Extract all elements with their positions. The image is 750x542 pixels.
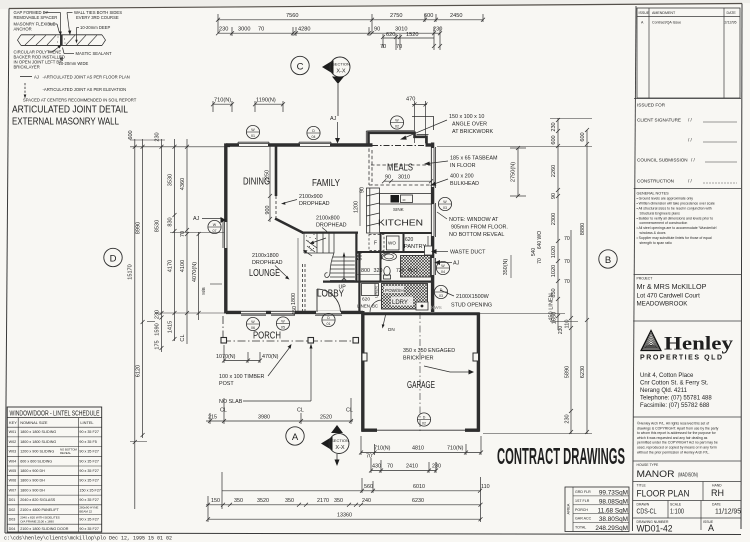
- svg-text:02: 02: [395, 125, 399, 129]
- sheet top border: [9, 4, 742, 9]
- grid circle C: [291, 56, 309, 74]
- laundry crosshatch: [382, 284, 428, 310]
- kitchen window lines: [434, 203, 436, 237]
- wall: dining/family divider: [275, 145, 278, 196]
- drophead note: 2100x900: [281, 194, 330, 207]
- svg-text:DN: DN: [388, 327, 395, 332]
- fridge dashed box: [369, 235, 384, 251]
- svg-text:A: A: [708, 523, 714, 533]
- wall: stair top: [302, 232, 358, 234]
- front door swing arc D01: [317, 289, 341, 312]
- svg-text:11.68 SqM: 11.68 SqM: [598, 507, 628, 514]
- garage walls: [362, 311, 480, 432]
- svg-text:Nerang Qld. 4211: Nerang Qld. 4211: [640, 388, 688, 394]
- svg-text:600: 600: [424, 13, 433, 19]
- svg-text:350: 350: [234, 498, 243, 504]
- svg-text:GRD FLR: GRD FLR: [575, 490, 591, 494]
- svg-text:ANGLE OVER: ANGLE OVER: [452, 122, 487, 128]
- dim row 2: 230 3000 70 4280 90 3010 230: [216, 27, 442, 51]
- svg-text:W03: W03: [9, 450, 17, 454]
- door circle D03 right: [434, 285, 447, 298]
- section marker X-X top: [322, 57, 350, 116]
- meals bay outline thin above: [412, 117, 434, 131]
- svg-text:3010: 3010: [398, 175, 410, 181]
- svg-text:RH: RH: [711, 488, 724, 498]
- window circle W04 right: [436, 261, 449, 274]
- window circle W02: [390, 116, 403, 129]
- svg-text:KITCHEN: KITCHEN: [378, 219, 423, 228]
- svg-text:1190(N): 1190(N): [256, 98, 276, 104]
- svg-text:COUNCIL SUBMISSION: COUNCIL SUBMISSION: [637, 158, 688, 163]
- waste duct box: [425, 246, 433, 255]
- exterior wall: meals bay step: [366, 131, 428, 144]
- svg-text:C: C: [297, 62, 304, 73]
- schedule header: [9, 420, 94, 425]
- issued for box: [634, 99, 741, 184]
- svg-text:AT BRICKWORK: AT BRICKWORK: [452, 129, 494, 135]
- svg-text:REMOVABLE SPACER: REMOVABLE SPACER: [14, 15, 58, 20]
- svg-text:2410: 2410: [406, 464, 418, 470]
- svg-text:MASTIC SEALANT: MASTIC SEALANT: [76, 51, 113, 56]
- svg-text:PORCH: PORCH: [253, 331, 281, 342]
- svg-text:W04: W04: [9, 459, 17, 463]
- top margin shade: [0, 0, 750, 9]
- dim row 3: 620 1520 + 70 70: [380, 32, 434, 50]
- svg-text:WASTE DUCT: WASTE DUCT: [450, 250, 486, 256]
- svg-text:permitted under the COPYRIG: permitted under the COPYRIGHT Act no par…: [637, 441, 718, 445]
- wall: angled lounge/stair: [275, 219, 304, 234]
- svg-text:90: 90: [551, 193, 557, 199]
- note: 2100x1500W stud opening: [440, 290, 492, 309]
- SECTION: floor plan: [193, 116, 460, 332]
- svg-text:2450: 2450: [450, 13, 462, 19]
- svg-text:to whom this report is ad: to whom this report is addressed for the…: [637, 431, 717, 435]
- svg-text:-ARTICULATED JOINT AS PER: -ARTICULATED JOINT AS PER ELEVATION: [43, 87, 127, 92]
- note: masonry flexible anchor: [14, 22, 60, 34]
- svg-text:WO: WO: [388, 241, 396, 246]
- svg-text:7560: 7560: [286, 13, 298, 19]
- right chain B x=571: [565, 230, 574, 434]
- svg-text:NOTE: WINDOW AT: NOTE: WINDOW AT: [449, 217, 499, 223]
- svg-text:W07: W07: [9, 488, 17, 492]
- grid circle A: [286, 427, 304, 445]
- svg-text:W: W: [281, 320, 285, 324]
- schedule row lines: [7, 427, 102, 524]
- svg-text:11/12/95: 11/12/95: [715, 509, 741, 516]
- chain line 4 x=174.5 : 3530 830 4170 1415: [168, 139, 177, 341]
- area table: [565, 487, 629, 532]
- general notes box: [634, 189, 741, 245]
- svg-text:230: 230: [565, 414, 571, 423]
- porch CL dim row: [206, 398, 353, 424]
- svg-text:04: 04: [441, 270, 445, 274]
- pantry shelves: [427, 236, 429, 250]
- note: no slab: [219, 344, 313, 406]
- wall section: masonry courses: [18, 35, 106, 46]
- svg-text:W: W: [251, 128, 255, 132]
- window openings: thin sections overlay: [224, 143, 434, 315]
- svg-text:6120: 6120: [136, 365, 142, 377]
- svg-text:M/B: M/B: [201, 287, 206, 295]
- svg-text:LDRY: LDRY: [392, 300, 408, 306]
- porch posts: [221, 338, 227, 344]
- svg-text:70: 70: [564, 259, 570, 265]
- dim row: 430 70 2410 230: [366, 454, 441, 474]
- exterior wall: bottom (lounge/lobby): [226, 312, 363, 315]
- svg-text:CL: CL: [180, 334, 186, 341]
- svg-text:DROPHEAD: DROPHEAD: [299, 201, 330, 207]
- svg-text:CDS-CL: CDS-CL: [637, 509, 657, 516]
- svg-text:01: 01: [327, 322, 331, 326]
- svg-text:KEY: KEY: [9, 420, 17, 425]
- meals tasbeam dashed line: [371, 164, 431, 166]
- svg-text:230: 230: [219, 27, 228, 33]
- svg-text:NOMINAL SIZE: NOMINAL SIZE: [20, 420, 48, 425]
- engaged brick pier right: [473, 353, 479, 361]
- svg-text:1800 x 900 DH: 1800 x 900 DH: [20, 488, 45, 492]
- title block frame: [633, 6, 637, 531]
- svg-text:which it was requested and: which it was requested and any fair deal…: [637, 436, 708, 440]
- schedule outer frame: [7, 407, 102, 532]
- svg-text:PANTRY: PANTRY: [404, 244, 426, 250]
- note: waste duct: [431, 249, 486, 256]
- svg-text:W01: W01: [9, 430, 17, 434]
- svg-text:CONTRACT DRAWINGS: CONTRACT DRAWINGS: [497, 443, 625, 469]
- svg-text:470(N): 470(N): [262, 354, 279, 360]
- svg-text:NO SLAB: NO SLAB: [219, 399, 243, 405]
- svg-text:5890: 5890: [565, 366, 571, 378]
- svg-text:185 x 65 TASBEAM: 185 x 65 TASBEAM: [450, 156, 498, 162]
- kitchen bench band (left): [367, 188, 380, 233]
- right garage verticals for dims: [435, 462, 437, 471]
- wall: laundry top: [357, 281, 432, 283]
- winder diagonals: [306, 240, 317, 248]
- SECTION: lintel schedule: [7, 407, 102, 532]
- bulkhead dashed line: [369, 184, 432, 186]
- svg-text:LOUNGE: LOUNGE: [249, 268, 280, 279]
- wc door arc: [381, 253, 390, 263]
- svg-text:DATE: DATE: [712, 503, 722, 507]
- dim row: 560 6010 110: [222, 472, 490, 509]
- svg-text:D: D: [312, 129, 315, 133]
- dim: 2250 rotated: [265, 170, 271, 182]
- door circle D02: [417, 413, 430, 426]
- henley logo box: [633, 321, 741, 409]
- svg-text:350: 350: [334, 498, 343, 504]
- svg-text:90 x 35 F27: 90 x 35 F27: [79, 459, 98, 463]
- dim 710(N) top left: [211, 98, 234, 113]
- schedule column lines: [17, 418, 19, 532]
- svg-text:2250: 2250: [265, 170, 271, 182]
- svg-text:HAND: HAND: [712, 484, 722, 488]
- svg-text:3000: 3000: [238, 27, 250, 33]
- note: mastic sealant: [63, 48, 113, 57]
- wc window: [434, 258, 436, 275]
- section marker X-X bottom: [321, 425, 349, 466]
- SECTION: left dimension chains: [104, 130, 230, 509]
- dim 1190(N) top: [253, 98, 285, 113]
- svg-text:STUD OPENING: STUD OPENING: [451, 303, 492, 309]
- svg-text:W.C: W.C: [408, 268, 418, 274]
- dim row: 13360: [206, 477, 483, 522]
- svg-text:• Written dimension will tak: • Written dimension will take precedence…: [637, 202, 715, 206]
- svg-text:1800: 1800: [291, 293, 297, 305]
- svg-text:70: 70: [380, 44, 386, 50]
- svg-text:4360: 4360: [180, 178, 186, 190]
- svg-text:NO BOTTOM REVEAL: NO BOTTOM REVEAL: [449, 232, 504, 238]
- exterior wall: top (dining/family): [226, 142, 434, 145]
- svg-text:CONSTRUCTION: CONSTRUCTION: [637, 179, 674, 184]
- svg-text:2100x800: 2100x800: [316, 216, 340, 222]
- sheet left border: [5, 9, 9, 534]
- copyright box: [633, 417, 741, 454]
- svg-text:• Supplier may substitute l: • Supplier may substitute lintels for th…: [637, 236, 712, 240]
- svg-text:PORCH: PORCH: [575, 508, 588, 512]
- svg-text:230: 230: [551, 122, 557, 131]
- svg-text:02: 02: [422, 422, 426, 426]
- svg-text:04: 04: [312, 135, 316, 139]
- amendment table: [637, 8, 740, 98]
- drawn row: [633, 501, 741, 519]
- svg-text:1800 x 1800 SLIDING: 1800 x 1800 SLIDING: [20, 430, 56, 434]
- chain line 5 x=187 : 4360 70 4100 CL: [180, 139, 189, 344]
- svg-text:10-20mm DEEP: 10-20mm DEEP: [80, 25, 110, 30]
- svg-text:used, reproduced or copied: used, reproduced or copied by means or i…: [637, 446, 717, 450]
- exterior wall: left: [223, 143, 226, 313]
- svg-text:1200 x 900 SLIDING: 1200 x 900 SLIDING: [20, 450, 54, 454]
- kitchen dims 90 / 3010: [382, 175, 433, 184]
- svg-text:1ST FLR: 1ST FLR: [575, 499, 590, 503]
- kitchen top bench with sink: [380, 194, 433, 213]
- wall oven box: [387, 236, 400, 250]
- svg-text:W: W: [213, 223, 217, 227]
- svg-text:2/12/95: 2/12/95: [725, 21, 737, 25]
- AJ marker left wall: [193, 216, 226, 223]
- dim row: 710(N) 4810 710(N): [359, 436, 483, 455]
- svg-text:DATE: DATE: [727, 11, 737, 15]
- SECTION: title block: [633, 6, 742, 535]
- sink unit: [401, 195, 413, 203]
- dim ticks dining wall: [268, 146, 272, 222]
- svg-text:B: B: [605, 255, 611, 266]
- svg-text:A: A: [292, 432, 299, 443]
- schedule rows: [9, 430, 101, 531]
- dim row: 150 350 3520 350 2170 350 240 6230: [206, 496, 483, 522]
- svg-text:1020: 1020: [551, 265, 557, 277]
- meals window lines: [434, 147, 436, 188]
- exterior wall: right: [433, 143, 436, 313]
- svg-text:drawings is COPYRIGHT. Apar: drawings is COPYRIGHT. Apart from use by…: [637, 426, 719, 430]
- svg-text:620: 620: [386, 32, 395, 38]
- svg-text:strength to span ratio: strength to span ratio: [640, 241, 672, 245]
- joint: [60, 35, 63, 46]
- svg-text:830: 830: [168, 217, 174, 226]
- stair arrow up: [339, 252, 347, 291]
- svg-text:70: 70: [396, 44, 402, 50]
- garage center dash-dot line: [419, 312, 421, 431]
- connector ticks right: [437, 119, 592, 434]
- svg-text:600: 600: [128, 130, 134, 139]
- svg-text:CLIENT SIGNATURE: CLIENT SIGNATURE: [637, 118, 681, 123]
- note: wall ties both sides: [67, 10, 122, 35]
- note: 185x65 tasbeam: [424, 156, 498, 170]
- opening 2100x900 below divider (drophead): [275, 196, 277, 219]
- svg-text:ARTICULATED JOINT DETAIL: ARTICULATED JOINT DETAIL: [12, 105, 128, 116]
- svg-text:110: 110: [481, 484, 490, 490]
- svg-text:2520: 2520: [320, 415, 332, 421]
- svg-text:BULKHEAD: BULKHEAD: [450, 181, 479, 187]
- drophead note: 2100x800: [316, 216, 347, 232]
- svg-text:WINDOW/DOOR - LINTEL SCHEDULE: WINDOW/DOOR - LINTEL SCHEDULE: [10, 409, 100, 418]
- svg-text:D02: D02: [9, 508, 16, 512]
- house type box: [633, 461, 741, 480]
- svg-text:2100x900: 2100x900: [299, 194, 323, 200]
- svg-text:8530: 8530: [155, 220, 161, 232]
- svg-text:01: 01: [251, 134, 255, 138]
- svg-text:DRAWN: DRAWN: [637, 503, 650, 507]
- svg-text:D04: D04: [9, 527, 16, 531]
- svg-text:MEALS: MEALS: [387, 163, 413, 174]
- svg-text:1:100: 1:100: [670, 509, 684, 516]
- svg-text:ISSUE: ISSUE: [639, 11, 650, 15]
- svg-text:90 x 35 F27: 90 x 35 F27: [79, 450, 98, 454]
- svg-text:• Builder to verify all dim: • Builder to verify all dimensions and l…: [637, 216, 714, 220]
- svg-text:MEADOWBROOK: MEADOWBROOK: [637, 301, 689, 308]
- note: 350x350 engaged brick pier: [403, 348, 474, 375]
- chain line 1 x=134.5 : 15170: [128, 130, 137, 509]
- svg-text:D03: D03: [9, 518, 16, 522]
- svg-text:1415: 1415: [168, 321, 174, 333]
- door D04 recess in top wall: [299, 142, 331, 145]
- label: POW/SH + LDRY: [384, 286, 404, 293]
- kitchen/pantry wall: [380, 232, 432, 234]
- svg-text:W: W: [441, 264, 445, 268]
- note: 150x100x10 angle over: [400, 114, 494, 140]
- svg-text:CL: CL: [346, 408, 353, 414]
- svg-text:BRICK PIER: BRICK PIER: [403, 356, 434, 362]
- svg-text:AREA: AREA: [566, 503, 571, 514]
- chain line 3 x=161.5 : 8530 230 1590 175: [155, 132, 164, 352]
- dim 470 top right: [406, 97, 428, 144]
- svg-text:LINEN: LINEN: [357, 304, 370, 309]
- vanity oval in wc: [382, 253, 397, 261]
- svg-text:• Ground levels are approxi: • Ground levels are approximate only: [637, 197, 694, 201]
- svg-text:13360: 13360: [337, 513, 352, 519]
- legend: AJ floor plan: [20, 75, 130, 80]
- svg-text:6010: 6010: [413, 484, 425, 490]
- svg-text:©Henley Arch P/L. All rights: ©Henley Arch P/L. All rights reserved th…: [637, 422, 709, 426]
- svg-text:1800 x 900 DH: 1800 x 900 DH: [20, 469, 45, 473]
- door circle D01 bottom: [322, 313, 335, 326]
- svg-text:620: 620: [405, 237, 414, 243]
- SECTION: contract + area table: [497, 443, 629, 532]
- svg-text:CL: CL: [297, 408, 304, 414]
- SECTION: footer path: [4, 536, 172, 542]
- svg-text:AJ: AJ: [453, 261, 460, 267]
- sheet bottom border: [5, 533, 741, 535]
- porch dims 1070(N) 470(N): [216, 345, 279, 363]
- svg-text:8880: 8880: [580, 223, 586, 235]
- svg-text:1200: 1200: [354, 201, 360, 213]
- window W01 recess in top wall: [238, 142, 269, 145]
- svg-text:Unit 4, Cotton Place: Unit 4, Cotton Place: [640, 373, 694, 379]
- svg-text:MANOR: MANOR: [637, 469, 675, 480]
- svg-text:ISSUED FOR: ISSUED FOR: [637, 103, 666, 108]
- winder treads vertical: [316, 234, 318, 254]
- svg-text:4070(N): 4070(N): [192, 262, 198, 282]
- svg-text:230: 230: [433, 27, 442, 33]
- note: 10-20mm wide: [59, 56, 89, 66]
- svg-text:POW/SH: POW/SH: [385, 288, 404, 293]
- garage door opening line: [376, 429, 466, 431]
- SECTION: articulated joint detail: [12, 10, 137, 128]
- svg-text:W02: W02: [9, 440, 17, 444]
- wall: stair right / lobby: [355, 233, 357, 282]
- right chain C x=587: [580, 128, 589, 434]
- svg-text:600 x 600 SLIDING: 600 x 600 SLIDING: [20, 459, 52, 463]
- note: circular polythene backer rod: [14, 45, 65, 70]
- SECTION: bottom dims: [206, 311, 490, 522]
- svg-text:640 WO: 640 WO: [537, 231, 543, 249]
- window circle W06 bottom: [246, 317, 259, 330]
- svg-text:ANCHOR: ANCHOR: [14, 27, 32, 32]
- svg-text:• All steel openings are to: • All steel openings are to accommodate …: [637, 226, 718, 230]
- svg-text:03: 03: [443, 206, 447, 210]
- AJ marker right wall: [435, 260, 460, 267]
- window circle W05 bottom: [276, 317, 289, 330]
- svg-text::c:: :c:: [402, 197, 406, 202]
- svg-text:BRICKLAYER: BRICKLAYER: [14, 65, 40, 70]
- hws appliance: [416, 302, 428, 310]
- svg-text:W: W: [395, 119, 399, 123]
- svg-text:WD01-42: WD01-42: [637, 524, 673, 535]
- svg-text:07: 07: [213, 229, 217, 233]
- svg-text:175: 175: [155, 340, 161, 349]
- note: 100x100 timber post: [219, 344, 292, 387]
- svg-text:2100x1800: 2100x1800: [252, 253, 279, 259]
- svg-text:D01: D01: [9, 498, 16, 502]
- svg-text:SINK: SINK: [393, 207, 405, 212]
- svg-text:PROJECT: PROJECT: [637, 277, 653, 281]
- dim row 1: 7560 2750 600 2450: [216, 13, 485, 33]
- window circle W01: [246, 125, 259, 138]
- cooktop black: [391, 195, 400, 203]
- svg-text:Mr & MRS McKILLOP: Mr & MRS McKILLOP: [637, 282, 707, 291]
- svg-text:90 x 35 F27: 90 x 35 F27: [79, 479, 98, 483]
- logo triangle: [641, 331, 661, 351]
- svg-text:AJ: AJ: [34, 75, 39, 80]
- svg-text:90 x 35 F27: 90 x 35 F27: [79, 430, 98, 434]
- svg-text:240: 240: [362, 498, 371, 504]
- wall: lobby/linen vertical: [358, 252, 360, 313]
- svg-text:DROPHEAD: DROPHEAD: [252, 260, 283, 266]
- small cluster 640 WO 540 70: [531, 231, 543, 264]
- svg-text:Telephone: (07) 55781 488: Telephone: (07) 55781 488: [640, 396, 712, 402]
- wall: kitchen nook bottom: [356, 251, 381, 253]
- svg-text:windows & doors: windows & doors: [640, 231, 666, 235]
- svg-text:Contract/QA Issue: Contract/QA Issue: [652, 21, 681, 25]
- svg-text:D: D: [110, 254, 117, 265]
- svg-text:70: 70: [537, 258, 543, 264]
- svg-text:W06: W06: [9, 479, 17, 483]
- lower flight treads: [333, 256, 355, 258]
- svg-text:2100 x 1800 SLIDING DOOR: 2100 x 1800 SLIDING DOOR: [20, 527, 69, 531]
- svg-text:400 x 200: 400 x 200: [450, 174, 474, 180]
- drophead note: 2100x1800: [252, 253, 290, 280]
- SECTION: right dims and notes: [400, 114, 617, 434]
- note: window at 905mm: [437, 212, 508, 238]
- svg-text:430: 430: [372, 464, 381, 470]
